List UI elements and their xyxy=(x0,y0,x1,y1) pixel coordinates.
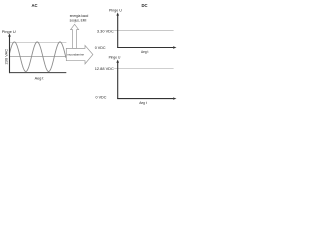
energy loss block arrow (up) xyxy=(71,24,79,48)
conversion block arrow (right) xyxy=(66,45,93,64)
svg-text:DC: DC xyxy=(141,3,147,8)
svg-text:Pinge U: Pinge U xyxy=(109,8,122,12)
AC plot peak level line xyxy=(10,41,66,43)
DC bottom x-axis arrowhead xyxy=(173,97,176,99)
DC top x-axis xyxy=(117,47,173,49)
svg-text:soojus, EMI: soojus, EMI xyxy=(70,19,87,23)
svg-text:12.88 VDC: 12.88 VDC xyxy=(95,66,114,71)
AC y-axis xyxy=(9,35,11,73)
DC top y-axis arrowhead xyxy=(116,12,119,15)
svg-text:Aeg t: Aeg t xyxy=(35,77,45,81)
svg-text:Pinge U: Pinge U xyxy=(109,56,121,60)
svg-text:0 VDC: 0 VDC xyxy=(95,46,106,50)
DC bottom x-axis xyxy=(117,98,173,100)
DC top 3.30 VDC level line xyxy=(114,30,173,32)
svg-text:Aeg t: Aeg t xyxy=(139,101,147,105)
DC bottom y-axis arrowhead xyxy=(116,60,119,63)
AC y-axis arrowhead xyxy=(8,33,11,36)
svg-text:Pinge U: Pinge U xyxy=(2,29,16,34)
svg-text:Aeg t: Aeg t xyxy=(141,50,149,54)
svg-text:0 VDC: 0 VDC xyxy=(96,95,107,99)
svg-text:energia kaod: energia kaod xyxy=(70,14,89,18)
svg-text:muundamine: muundamine xyxy=(67,53,84,57)
DC bottom 12.88 VDC level line xyxy=(114,67,173,69)
DC top y-axis xyxy=(117,15,119,48)
AC sine wave xyxy=(10,42,67,72)
AC x-axis xyxy=(9,72,66,74)
svg-text:AC: AC xyxy=(31,3,37,8)
DC top x-axis arrowhead xyxy=(173,46,176,48)
DC bottom y-axis xyxy=(117,62,119,99)
svg-text:230 VAC: 230 VAC xyxy=(3,49,8,65)
svg-text:3.30 VDC: 3.30 VDC xyxy=(97,28,114,33)
AC plot zero level line xyxy=(10,56,66,58)
